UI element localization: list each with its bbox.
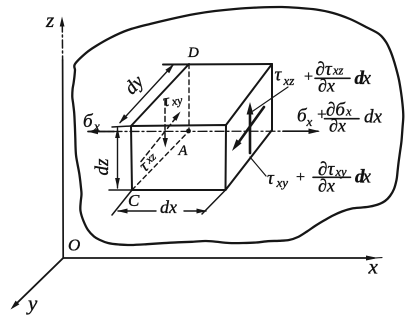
box bottom right receding edge BBR to FBR: [226, 130, 273, 190]
svg-text:xy: xy: [170, 93, 185, 109]
bottom front edge extension (for dz dimension): [109, 189, 132, 191]
svg-text:+: +: [295, 169, 306, 186]
tau_xz+ arrow (right face, up): [249, 110, 252, 153]
svg-text:x: x: [362, 167, 372, 188]
svg-text:C: C: [128, 191, 140, 210]
fraction bar mid right: [325, 118, 360, 120]
y-axis arrowhead: [11, 301, 20, 310]
svg-text:xy: xy: [276, 175, 289, 190]
dz top arrowhead: [115, 128, 120, 139]
svg-text:D: D: [187, 45, 199, 61]
x-axis overshoot: [374, 257, 382, 259]
z-axis line (dash-dot): [61, 24, 63, 60]
label tau_xz (hidden, rotated): [135, 149, 162, 176]
x-axis arrowhead: [366, 256, 378, 261]
fraction bar bottom right: [313, 176, 351, 178]
svg-text:dx: dx: [160, 197, 177, 217]
svg-text:x: x: [93, 119, 100, 134]
box edge FTL to D: [131, 64, 189, 126]
svg-text:dx: dx: [364, 107, 383, 128]
svg-text:x: x: [362, 68, 372, 89]
dz dimension line: [117, 128, 119, 188]
dx dimension line right segment: [184, 210, 206, 212]
y-axis line: [16, 258, 63, 304]
tau_xz hidden arrow (down, dashed): [164, 100, 166, 139]
label dz (rotated): [92, 158, 113, 176]
svg-text:xz: xz: [283, 73, 295, 88]
box front face: [131, 125, 226, 190]
svg-text:y: y: [26, 291, 38, 315]
tau_xy+ arrow (right face, down-left): [237, 107, 264, 145]
top front edge extension (for dz dimension): [112, 126, 131, 127]
svg-text:τ: τ: [267, 168, 275, 189]
svg-text:z: z: [45, 8, 54, 32]
dz bottom arrowhead: [115, 178, 120, 189]
z-axis line lower solid: [62, 60, 65, 258]
x-axis line: [63, 257, 374, 259]
svg-text:τ: τ: [161, 91, 171, 111]
svg-text:∂x: ∂x: [329, 116, 346, 136]
label dy (rotated): [121, 71, 149, 99]
svg-text:τ: τ: [275, 65, 283, 86]
svg-text:x: x: [306, 114, 313, 129]
svg-text:x: x: [345, 105, 352, 119]
dx left arrowhead: [117, 209, 128, 214]
sigma_x arrow (negative face, pointing left): [88, 131, 114, 133]
svg-text:+: +: [303, 69, 314, 86]
svg-text:O: O: [68, 236, 80, 255]
z-axis arrowhead: [60, 17, 65, 27]
sigma_x+ arrow (positive face, pointing right): [283, 130, 318, 132]
dx extension line through C: [112, 190, 132, 215]
dx right arrowhead: [197, 209, 208, 214]
hidden edge C to BBL (dashed): [132, 131, 189, 190]
dy bottom arrowhead: [119, 114, 128, 123]
svg-text:x: x: [368, 255, 379, 279]
box top back edge (extended left for dy dimension): [163, 63, 272, 66]
leader line tau_xy+ label: [250, 157, 266, 176]
label tau_xy (hidden): [161, 88, 184, 110]
blob body outline: [72, 7, 403, 245]
box back right vertical edge: [271, 64, 273, 130]
leader line tau_xz+ label: [253, 87, 288, 111]
dx extension line through FBR: [202, 190, 226, 214]
tau_xy hidden arrow (up-right, dashed): [141, 120, 175, 162]
svg-text:xy: xy: [335, 165, 348, 179]
svg-text:∂x: ∂x: [318, 76, 335, 96]
dy dimension line: [120, 65, 173, 123]
dx dimension line left segment: [118, 210, 156, 212]
svg-text:б: б: [83, 111, 94, 132]
svg-text:∂x: ∂x: [318, 176, 335, 196]
dy top arrowhead: [165, 64, 174, 73]
fraction bar top right: [315, 77, 350, 79]
svg-text:dy: dy: [121, 71, 149, 99]
svg-text:dz: dz: [92, 158, 113, 176]
node A dot: [186, 129, 191, 134]
hidden edge D to BBL (dashed): [188, 64, 190, 130]
box edge FTR to BTR: [226, 64, 272, 125]
centre dash-dot axis line through element: [96, 130, 285, 132]
svg-text:A: A: [178, 143, 188, 159]
